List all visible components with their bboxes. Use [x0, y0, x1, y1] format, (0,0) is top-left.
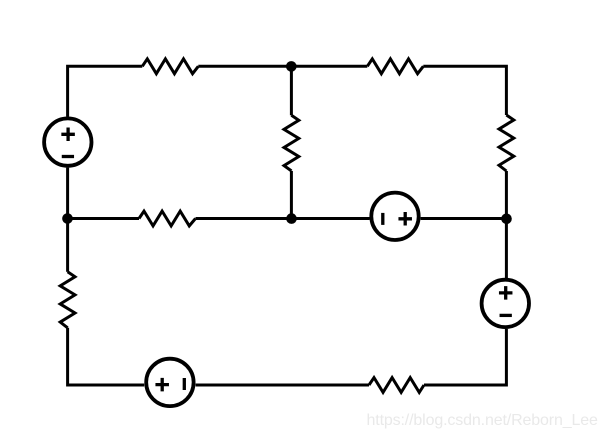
node center-middle junction [286, 213, 297, 224]
wire left (left node down to R7 top) [66, 219, 69, 272]
voltage source V1 circle (left, + top / - bottom) [44, 118, 91, 165]
wire left (V1 bottom to left-middle node) [66, 168, 69, 219]
V4 plus sign [155, 378, 169, 392]
resistor R2 (top-right horizontal) [367, 59, 423, 74]
wire bottom-left L (V4 left to corner, up to R7 bottom) [68, 328, 145, 385]
V3 plus sign [499, 286, 513, 300]
V1 plus sign [61, 128, 75, 142]
V1 minus sign [62, 155, 74, 158]
V4 minus bar (vertical) [183, 378, 186, 390]
wire center (R4 bottom to middle node) [290, 171, 293, 219]
wire right (right node down to V3 top) [505, 219, 508, 279]
resistor R4 (center vertical) [284, 115, 299, 171]
wire top-left L (from V1 top up and right to R1) [68, 66, 143, 116]
V3 minus sign [500, 314, 512, 317]
resistor R5 (right vertical) [499, 115, 514, 171]
wire top-right L (R2 to corner, down to R5) [423, 66, 506, 115]
resistor R1 (top-left horizontal) [142, 59, 198, 74]
wire bottom-right L (V3 bottom to corner and left to R6) [424, 329, 506, 385]
node right-middle junction [501, 214, 512, 225]
resistor R6 (bottom horizontal) [369, 378, 424, 393]
wire center stub (top node down to R4) [290, 66, 293, 115]
voltage source V3 circle (right, + top / - bottom) [482, 280, 529, 327]
wire middle-center (R3 to V2 through center node) [196, 217, 370, 220]
wire middle-right (V2 to right node) [421, 217, 507, 220]
wire right (R5 bottom to right node) [505, 171, 508, 219]
voltage source V2 circle (middle row, - left / + right) [371, 193, 418, 240]
wire bottom-middle (R6 to V4) [196, 384, 369, 387]
node left-middle junction [62, 213, 73, 224]
V2 minus bar (vertical) [381, 213, 384, 225]
wire middle-left (left node to R3) [68, 217, 139, 220]
wire top-middle (R1 to R2 through top node) [198, 65, 367, 68]
V2 plus sign [398, 212, 412, 226]
voltage source V4 circle (bottom-left, + left / - right) [146, 359, 193, 406]
resistor R7 (bottom-left vertical) [60, 272, 75, 328]
watermark text [367, 412, 598, 430]
node top-center junction [286, 61, 297, 72]
resistor R3 (middle row horizontal) [139, 211, 196, 226]
